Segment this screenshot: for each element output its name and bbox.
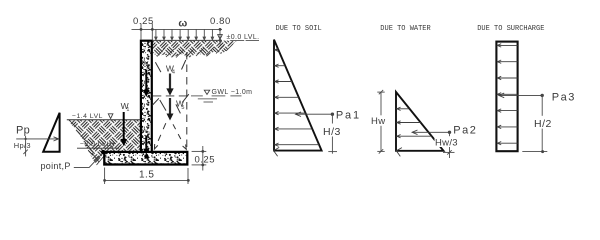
dimension extension line at right end <box>219 28 221 45</box>
svg-text:point,P: point,P <box>41 161 71 171</box>
W1 weight arrow <box>123 112 125 140</box>
svg-text:ω: ω <box>178 18 187 30</box>
svg-text:Pa3: Pa3 <box>552 91 576 103</box>
svg-text:Pa1: Pa1 <box>336 110 361 122</box>
-2.0 level marker triangle <box>110 143 115 148</box>
resultant point dot in footing <box>144 154 148 158</box>
-1.4 LVL ground line left of wall <box>67 119 141 121</box>
dashed rupture lines around W4 <box>152 60 189 113</box>
svg-text:2: 2 <box>148 64 151 70</box>
footing (concrete stipple) <box>104 152 187 165</box>
H/3 dimension line <box>331 114 333 154</box>
svg-text:4: 4 <box>172 70 175 76</box>
Pa3 resultant arrow <box>499 94 542 96</box>
GWL dashed level line in backfill <box>153 95 190 97</box>
footing width dim 1.5 <box>104 168 106 185</box>
svg-text:Hw: Hw <box>371 116 386 127</box>
svg-text:DUE TO SURCHARGE: DUE TO SURCHARGE <box>477 25 544 33</box>
W4 weight arrow <box>169 74 171 90</box>
ground line at +0.0 right of stem <box>152 39 222 41</box>
soil hatch band behind wall (backfill top) <box>152 41 237 58</box>
svg-text:1: 1 <box>126 107 129 113</box>
W2 weight arrow in stem <box>145 70 147 91</box>
svg-text:Hw/3: Hw/3 <box>435 138 458 149</box>
torn edge marks of backfill band <box>157 44 233 58</box>
svg-text:0.25: 0.25 <box>195 155 216 166</box>
svg-text:0.80: 0.80 <box>210 16 231 27</box>
torn edge marks of left soil <box>70 121 104 165</box>
dashed ray with arrowhead to lower-left <box>154 123 165 149</box>
footing thickness dim 0.25 <box>192 150 207 152</box>
surcharge pressure rectangle <box>496 42 517 152</box>
Pa1 resultant arrow <box>296 113 333 115</box>
svg-text:GWL −1.0m: GWL −1.0m <box>212 89 253 96</box>
svg-text:Pp: Pp <box>16 125 30 137</box>
dimension extension line left of stem <box>140 24 142 41</box>
surcharge pressure arrows <box>497 44 517 145</box>
Hw dimension line <box>380 92 382 151</box>
svg-text:5: 5 <box>181 105 184 111</box>
water pressure triangle <box>396 92 444 151</box>
water pressure arrows <box>396 107 431 156</box>
svg-text:Pa2: Pa2 <box>453 125 477 137</box>
Pa2 resultant arrow <box>412 131 449 133</box>
-2.0 LVL line <box>77 147 119 149</box>
dimension dots <box>140 28 143 31</box>
top dimension line <box>132 28 223 30</box>
passive pressure triangle Pp <box>43 113 59 152</box>
soil pressure triangle <box>274 40 322 151</box>
point P leader line <box>74 153 103 168</box>
svg-text:−2.0 LVL: −2.0 LVL <box>80 141 111 148</box>
Pp resultant arrow <box>16 138 57 140</box>
GWL water table marker <box>204 90 209 94</box>
dimension extension line right of stem <box>151 24 153 41</box>
soil hatch left of wall (between -1.4 LVL and footing) <box>67 120 141 165</box>
svg-text:±0.0 LVL.: ±0.0 LVL. <box>227 34 260 41</box>
H/2 dimension line <box>541 95 543 152</box>
svg-text:Hp/3: Hp/3 <box>14 141 31 150</box>
svg-text:DUE TO SOIL: DUE TO SOIL <box>276 25 322 33</box>
Hw/3 dimension line <box>449 132 451 158</box>
W5 weight arrow <box>169 98 171 114</box>
distributed surcharge load arrows <box>155 29 214 40</box>
node: resultant point at footing corner <box>101 150 105 154</box>
svg-text:H/2: H/2 <box>534 118 552 130</box>
svg-text:0.25: 0.25 <box>133 16 154 27</box>
svg-text:1.5: 1.5 <box>139 170 154 181</box>
W3 weight arrow to resultant point <box>145 136 147 150</box>
water table lines <box>191 96 242 102</box>
vertical dashed plane line <box>186 52 188 150</box>
soil pressure arrows <box>274 48 319 156</box>
svg-text:DUE TO WATER: DUE TO WATER <box>380 25 431 33</box>
-1.4 level marker triangle <box>108 114 113 119</box>
dashed ray with arrowhead to lower-right <box>173 124 186 149</box>
stem (concrete stipple) <box>141 41 152 152</box>
Hp/3 dimension line <box>25 136 27 156</box>
svg-text:H/3: H/3 <box>323 126 341 138</box>
+-0.0 level marker triangle <box>218 35 223 40</box>
svg-text:−1.4 LVL: −1.4 LVL <box>72 113 103 120</box>
